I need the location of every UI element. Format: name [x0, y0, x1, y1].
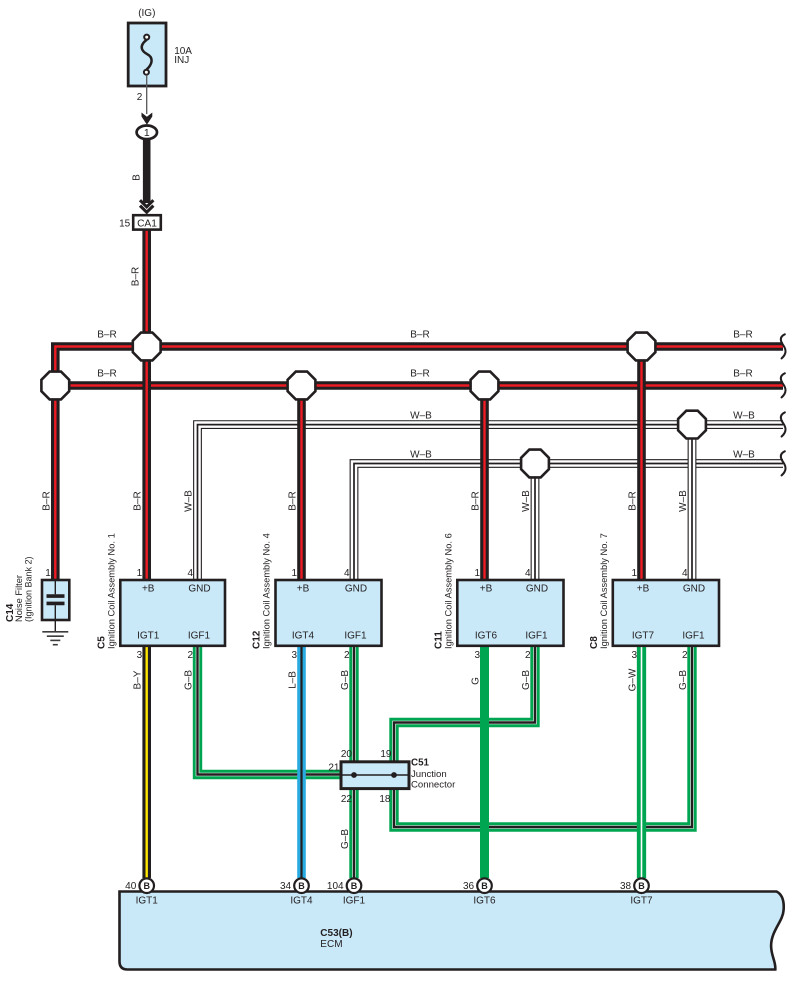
svg-text:Connector: Connector [411, 780, 456, 791]
junction J4 (B-R bus 2 / C11 +B) [471, 372, 499, 400]
svg-text:21: 21 [328, 762, 340, 773]
ignition coil assembly C11 [457, 580, 563, 646]
svg-text:GND: GND [526, 584, 548, 595]
svg-text:+B: +B [637, 584, 650, 595]
svg-text:4: 4 [187, 568, 193, 579]
svg-text:34: 34 [280, 881, 292, 892]
svg-text:W–B: W–B [521, 490, 532, 512]
svg-text:W–B: W–B [184, 490, 195, 512]
wire B-R from connector CA1 down to junction J1 [142, 229, 151, 347]
svg-text:38: 38 [620, 881, 632, 892]
fuse INJ 10A body [128, 23, 166, 86]
svg-text:W–B: W–B [410, 410, 432, 421]
wire W-B bus line 3 with corner down to C5 GND [198, 425, 784, 582]
svg-text:104: 104 [327, 881, 344, 892]
junction J6 (W-B bus 4 / C11 GND) [521, 450, 549, 478]
junction J3 (B-R bus 2 / C12 +B) [288, 372, 316, 400]
svg-text:2: 2 [525, 650, 531, 661]
junction J2 (B-R bus 1 to bus 2 corner) [41, 372, 69, 400]
label C51 Junction Connector [411, 758, 456, 791]
svg-text:B–Y: B–Y [133, 670, 144, 689]
pin numbers of C5 [137, 568, 194, 661]
svg-text:IGF1: IGF1 [344, 631, 367, 642]
svg-text:2: 2 [187, 650, 193, 661]
junction J1 (B-R bus 1 / fuse feed) [133, 333, 161, 361]
wire G-B from C5 IGF1 to junction connector C51 pin 21 [198, 644, 343, 775]
svg-text:+B: +B [142, 584, 155, 595]
svg-text:INJ: INJ [174, 55, 189, 66]
svg-text:B: B [481, 881, 488, 891]
svg-text:L–B: L–B [288, 671, 299, 689]
svg-text:22: 22 [341, 794, 353, 805]
svg-text:IGF1: IGF1 [188, 631, 211, 642]
svg-text:G: G [471, 677, 482, 685]
continuation mark bus line 3 [781, 412, 786, 436]
ignition coil assembly C12 [276, 580, 382, 646]
continuation mark bus line 2 [781, 373, 786, 397]
svg-text:4: 4 [525, 568, 531, 579]
node 1 ellipse [137, 126, 157, 140]
label 10A INJ [174, 46, 192, 66]
svg-text:4: 4 [344, 568, 350, 579]
wire B-R from junction J4 down to C11 +B [480, 386, 489, 583]
ECM pin 36 IGT6 [463, 878, 496, 906]
svg-text:3: 3 [631, 650, 637, 661]
svg-text:B–R: B–R [41, 491, 52, 510]
wire B-R from junction J2 down to noise filter C14 [51, 386, 60, 583]
svg-text:G–B: G–B [678, 670, 689, 690]
junction dot C51 pin 19/18 [391, 772, 397, 778]
ECM pin 40 IGT1 [125, 878, 158, 906]
continuation mark bus line 4 [781, 451, 786, 475]
svg-text:IGF1: IGF1 [525, 631, 548, 642]
svg-text:B–R: B–R [131, 267, 142, 286]
svg-text:IGT6: IGT6 [473, 895, 496, 906]
wire B-R from junction J3 down to C12 +B [297, 386, 306, 583]
fuse symbol [142, 35, 152, 75]
svg-text:B: B [143, 881, 150, 891]
wire G-B from C12 IGF1 through C51 (pins 20/22) to ECM pin 104 [349, 644, 358, 878]
svg-text:B: B [298, 881, 305, 891]
wire B-Y from C5 IGT1 to ECM pin 40 [142, 644, 151, 878]
pin numbers of C11 [474, 568, 531, 661]
svg-text:2: 2 [137, 92, 143, 103]
svg-text:3: 3 [474, 650, 480, 661]
svg-text:W–B: W–B [410, 449, 432, 460]
svg-text:ECM: ECM [320, 939, 342, 950]
svg-text:36: 36 [463, 881, 475, 892]
junction J5 (B-R bus 1 / C8 +B) [628, 333, 656, 361]
ECM pin 34 IGT4 [280, 878, 313, 906]
wire B-R from junction J1 down to C5 +B [142, 347, 151, 583]
svg-text:Ignition Coil Assembly No. 4: Ignition Coil Assembly No. 4 [262, 533, 272, 649]
svg-text:CA1: CA1 [137, 219, 157, 230]
capacitor inside C14 [47, 580, 65, 632]
svg-text:C53(B): C53(B) [320, 928, 352, 939]
svg-text:B–R: B–R [410, 369, 429, 380]
svg-text:IGF1: IGF1 [343, 895, 366, 906]
wire B (thick) from node 1 to CA1 [143, 139, 151, 203]
svg-text:B: B [351, 881, 358, 891]
wire B-R from junction J5 down to C8 +B [637, 347, 646, 583]
ECM pin 104 IGF1 [327, 878, 366, 906]
pin numbers of C8 [631, 568, 688, 661]
ECM pin 38 IGT7 [620, 878, 653, 906]
svg-text:40: 40 [125, 881, 137, 892]
svg-text:W–B: W–B [678, 490, 689, 512]
svg-text:IGT7: IGT7 [630, 895, 653, 906]
ignition coil assembly C8 [613, 580, 719, 646]
svg-text:G–B: G–B [184, 670, 195, 690]
ignition coil assembly C5 [120, 580, 225, 646]
svg-text:G–B: G–B [340, 670, 351, 690]
svg-text:B–R: B–R [410, 330, 429, 341]
svg-text:G–W: G–W [628, 668, 639, 691]
svg-text:1: 1 [45, 568, 51, 579]
svg-text:IGT6: IGT6 [475, 631, 498, 642]
wire B-R bus line 2 [55, 381, 783, 390]
svg-text:1: 1 [474, 568, 480, 579]
svg-text:GND: GND [345, 584, 367, 595]
svg-text:Ignition Coil Assembly No. 6: Ignition Coil Assembly No. 6 [443, 533, 453, 649]
svg-text:+B: +B [480, 584, 493, 595]
wire B-R bus line 1 (from fuse, with left corner down to junction) [55, 347, 783, 386]
svg-text:B–R: B–R [133, 491, 144, 510]
svg-text:W–B: W–B [733, 449, 755, 460]
svg-text:B: B [638, 881, 645, 891]
svg-text:(Ignition Bank 2): (Ignition Bank 2) [23, 556, 33, 622]
svg-text:1: 1 [631, 568, 637, 579]
svg-text:15: 15 [119, 219, 131, 230]
svg-text:GND: GND [188, 584, 210, 595]
svg-text:B–R: B–R [628, 491, 639, 510]
svg-text:4: 4 [682, 568, 688, 579]
wire W-B bus line 4 with corner down to C12 GND [354, 464, 783, 583]
svg-text:IGT1: IGT1 [136, 895, 159, 906]
ECM C53(B) body [120, 892, 784, 970]
wire G from C11 IGT6 to ECM pin 36 [480, 644, 489, 878]
svg-text:B–R: B–R [97, 369, 116, 380]
svg-text:1: 1 [137, 568, 143, 579]
wire G-B from C11 IGF1 to junction connector C51 pin 19 [394, 644, 535, 763]
svg-text:IGT1: IGT1 [137, 631, 160, 642]
svg-text:+B: +B [297, 584, 310, 595]
wire W-B from junction J6 down to C11 GND [531, 464, 540, 583]
noise filter C14 body [42, 580, 69, 620]
svg-text:3: 3 [291, 650, 297, 661]
ground symbol below C14 [42, 632, 68, 645]
svg-text:IGT4: IGT4 [290, 895, 313, 906]
svg-text:2: 2 [682, 650, 688, 661]
double arrowhead into CA1 [140, 200, 153, 212]
svg-text:Ignition Coil Assembly No. 1: Ignition Coil Assembly No. 1 [106, 533, 116, 649]
svg-text:3: 3 [137, 650, 143, 661]
svg-text:20: 20 [341, 749, 353, 760]
svg-text:B–R: B–R [97, 330, 116, 341]
pin numbers of C51 [328, 749, 392, 805]
svg-text:18: 18 [379, 794, 391, 805]
wire W-B from junction J7 down to C8 GND [688, 425, 697, 582]
svg-text:B–R: B–R [471, 491, 482, 510]
continuation mark bus line 1 [781, 334, 786, 358]
svg-text:B: B [131, 174, 142, 181]
arrowhead into node 1 [142, 113, 153, 125]
svg-text:B–R: B–R [733, 369, 752, 380]
svg-text:IGT4: IGT4 [292, 631, 315, 642]
svg-text:1: 1 [291, 568, 297, 579]
svg-text:Junction: Junction [411, 769, 447, 780]
svg-text:IGT7: IGT7 [632, 631, 655, 642]
svg-text:IGF1: IGF1 [682, 631, 705, 642]
label C53(B) ECM [320, 928, 352, 950]
wire G-B from C8 IGF1 to junction connector C51 pin 18 [394, 644, 692, 827]
svg-text:G–B: G–B [521, 670, 532, 690]
svg-text:Ignition Coil Assembly No. 7: Ignition Coil Assembly No. 7 [599, 533, 609, 649]
svg-text:(IG): (IG) [138, 8, 155, 19]
svg-text:19: 19 [380, 749, 392, 760]
pin numbers of C12 [291, 568, 350, 661]
connector CA1 [133, 215, 161, 229]
wire lead from fuse [146, 75, 148, 114]
junction dot C51 pin 20/22 [351, 772, 357, 778]
svg-text:B–R: B–R [288, 491, 299, 510]
svg-text:G–B: G–B [340, 829, 351, 849]
svg-text:B–R: B–R [733, 330, 752, 341]
svg-text:2: 2 [344, 650, 350, 661]
svg-text:1: 1 [144, 127, 150, 139]
svg-text:GND: GND [683, 584, 705, 595]
junction J7 (W-B bus 3 / C8 GND) [678, 411, 706, 439]
svg-text:W–B: W–B [733, 410, 755, 421]
wire G-W from C8 IGT7 to ECM pin 38 [637, 644, 646, 878]
wire L-B from C12 IGT4 to ECM pin 34 [297, 644, 306, 878]
junction connector C51 [341, 762, 409, 789]
svg-text:C51: C51 [411, 758, 430, 769]
